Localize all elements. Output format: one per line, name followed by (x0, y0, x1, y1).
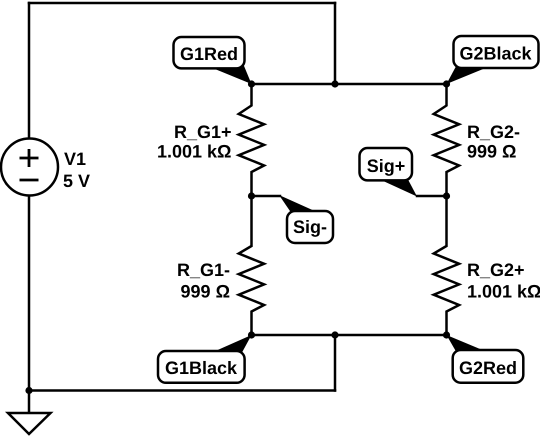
svg-text:999 Ω: 999 Ω (467, 142, 516, 162)
net flag G2Black (447, 36, 539, 84)
wire bottom rail y=391 (29, 389, 335, 392)
wire left rail upper (28, 3, 31, 139)
net flag G2Red (447, 335, 524, 383)
svg-text:999 Ω: 999 Ω (181, 282, 230, 302)
wire top drop at x=335 (334, 3, 337, 84)
svg-text:1.001 kΩ: 1.001 kΩ (467, 282, 540, 302)
svg-text:Sig-: Sig- (293, 217, 327, 237)
junction dot node G2Red (443, 331, 450, 338)
svg-text:G1Black: G1Black (165, 358, 238, 378)
svg-text:G1Red: G1Red (180, 44, 238, 64)
junction dot node Sig- (248, 192, 255, 199)
svg-text:R_G2-: R_G2- (467, 122, 520, 142)
wire bottom drop x=336 (334, 335, 337, 391)
resistor R_G2- (434, 84, 459, 196)
resistor R_G1- (239, 196, 264, 335)
junction dot node G1Black (248, 331, 255, 338)
net flag Sig+ (360, 148, 418, 197)
junction dot bottom mid (331, 331, 338, 338)
net flag Sig- (279, 195, 333, 243)
voltage source V1 minus sign (20, 179, 39, 182)
ground (8, 413, 51, 434)
svg-text:R_G2+: R_G2+ (467, 260, 525, 280)
wire Sig+ stub (417, 195, 447, 198)
net flag G1Red (174, 37, 252, 84)
voltage source V1 circle (1, 139, 58, 196)
junction dot node Sig+ (443, 192, 450, 199)
junction dot node G2Black (443, 80, 450, 87)
net flag G1Black (158, 335, 252, 383)
svg-text:G2Black: G2Black (459, 44, 532, 64)
svg-text:R_G1+: R_G1+ (174, 122, 232, 142)
wire bottom horizontal bus y=335 (252, 334, 447, 337)
junction dot node G1Red (248, 80, 255, 87)
svg-text:G2Red: G2Red (459, 358, 517, 378)
wire Sig- stub (252, 195, 281, 198)
junction dot ground node (25, 387, 32, 394)
svg-text:V1: V1 (64, 149, 86, 169)
wire ground stem (28, 391, 31, 414)
resistor R_G2+ (434, 196, 459, 335)
svg-text:1.001 kΩ: 1.001 kΩ (157, 142, 232, 162)
voltage source V1 plus sign (20, 149, 39, 167)
svg-text:5 V: 5 V (63, 171, 90, 191)
wire top rail (29, 2, 335, 5)
wire left rail lower (28, 196, 31, 391)
resistor R_G1+ (239, 84, 264, 196)
wire top horizontal bus y=84 (252, 83, 447, 86)
svg-text:Sig+: Sig+ (367, 156, 406, 176)
junction dot top mid (331, 80, 338, 87)
svg-text:R_G1-: R_G1- (177, 260, 230, 280)
